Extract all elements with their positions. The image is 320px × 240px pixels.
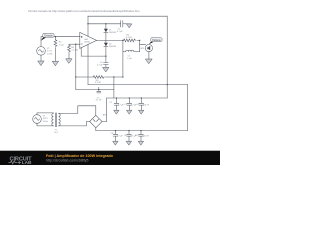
- wire V1 leads: [37, 113, 53, 126]
- voltage source V2: [37, 47, 46, 56]
- wire V+ pin: [87, 16, 89, 36]
- wire V- pin down: [87, 45, 89, 85]
- ground (V2): [38, 61, 44, 65]
- wire V+ to C1: [88, 23, 120, 25]
- ground (C9): [126, 141, 131, 145]
- capacitor C5: [104, 62, 109, 64]
- junction rail2 C10: [140, 130, 141, 131]
- wire C7 stub: [98, 87, 100, 91]
- wire R1 leads: [55, 37, 57, 61]
- svg-text:Circuito tomado de http://www.: Circuito tomado de http://www.pablin.com…: [28, 9, 140, 13]
- wire speaker bottom: [148, 52, 150, 59]
- junction rail1 C3: [129, 97, 130, 98]
- junction rail2 C9: [128, 130, 129, 131]
- callout Parlante: [149, 38, 162, 45]
- labels group2: [111, 133, 150, 138]
- svg-text:1.1 kΩ: 1.1 kΩ: [71, 50, 78, 52]
- svg-text:4.7 µF: 4.7 µF: [117, 31, 123, 33]
- wire feedback drop from L1 left node: [122, 52, 124, 77]
- junction at V+ pin: [87, 23, 88, 24]
- svg-text:100 nF: 100 nF: [142, 136, 149, 138]
- wire secondary top path: [59, 106, 96, 116]
- wire W_vminus: [88, 84, 188, 86]
- wire vertical x=113.9: [113, 77, 115, 98]
- svg-text:1 µH: 1 µH: [127, 58, 132, 60]
- svg-text:Entrada: Entrada: [44, 35, 53, 38]
- footer bar: [0, 151, 220, 165]
- svg-text:4.7 nF: 4.7 nF: [96, 100, 102, 102]
- transformer T1: [52, 113, 60, 127]
- capacitor C4: [139, 98, 144, 110]
- speaker SP1: [145, 45, 152, 52]
- svg-text:Parlante: Parlante: [152, 39, 161, 42]
- wire top rail: [88, 15, 167, 17]
- junction feedback node right: [122, 76, 123, 77]
- svg-text:1 kΩ: 1 kΩ: [59, 44, 64, 46]
- wire V2 bottom: [40, 55, 42, 61]
- junction at R1 top: [55, 36, 56, 37]
- wire opamp output: [97, 39, 124, 41]
- voltage source V1: [33, 115, 42, 124]
- wire secondary bottom path: [59, 122, 90, 126]
- junction at right supply node: [167, 84, 168, 85]
- ground (C10): [138, 141, 143, 145]
- ground (C5): [103, 67, 109, 71]
- wire minus input: [69, 43, 80, 45]
- junction at R4/L1 right node: [139, 40, 140, 41]
- diode D2: [104, 43, 108, 47]
- inductor L1: [123, 50, 140, 52]
- svg-text:LM741: LM741: [84, 42, 91, 44]
- junction rail1 C2: [116, 97, 117, 98]
- wire rail1 left riser to bridge: [102, 98, 107, 122]
- wire rail1: [107, 97, 168, 99]
- capacitor C9: [127, 131, 132, 141]
- capacitor C3: [127, 98, 132, 110]
- svg-text:Foki | Amplificador de 100W in: Foki | Amplificador de 100W integrado: [46, 154, 114, 158]
- junction at C7: [98, 89, 99, 90]
- label C2: [109, 102, 124, 107]
- resistor R3: [93, 76, 104, 79]
- ground (R1): [52, 61, 58, 65]
- wire rail2: [96, 85, 188, 131]
- wire offset pin riser to C5 node: [81, 48, 106, 56]
- callout Entrada: [41, 33, 54, 40]
- diode D1: [104, 29, 108, 33]
- resistor R2: [68, 45, 71, 52]
- ground (SP1): [146, 59, 153, 64]
- resistor R1: [54, 40, 57, 47]
- capacitor C1: [121, 21, 123, 27]
- wire minus input vertical: [75, 44, 77, 89]
- wire R2 lead: [68, 44, 70, 58]
- junction at inverting input: [75, 44, 76, 45]
- ground (C1): [127, 24, 132, 28]
- svg-text:1 kHz: 1 kHz: [47, 54, 53, 56]
- junction feedback node left: [75, 76, 76, 77]
- wire R4 right to speaker: [137, 40, 146, 44]
- wire C1 to ground: [123, 23, 129, 25]
- junction rail2 C8: [115, 130, 116, 131]
- capacitor C7: [97, 91, 101, 93]
- junction at D1 top: [105, 23, 106, 24]
- svg-text:1N4148: 1N4148: [109, 32, 117, 34]
- svg-text:4.7 µF: 4.7 µF: [117, 136, 123, 138]
- junction rail1 C4: [141, 97, 142, 98]
- wire W_b: [76, 89, 114, 91]
- wire L1 branch: [123, 40, 140, 51]
- svg-text:50 Hz: 50 Hz: [43, 121, 48, 123]
- svg-text:3.3 kΩ: 3.3 kΩ: [126, 37, 132, 39]
- ground (C8): [113, 141, 118, 145]
- svg-text:4.7 µF: 4.7 µF: [97, 65, 103, 67]
- wire V2 top to opamp plus input: [41, 37, 80, 47]
- svg-text:4.3 kΩ: 4.3 kΩ: [95, 82, 101, 84]
- svg-text:100 nF: 100 nF: [143, 105, 150, 107]
- capacitor C10: [139, 131, 144, 141]
- wire diode chain: [105, 24, 107, 67]
- junction at C5 top: [105, 55, 106, 56]
- junction feedback mid: [113, 76, 114, 77]
- svg-text:1 mV: 1 mV: [47, 51, 53, 53]
- label C4: [136, 104, 149, 107]
- logo symbols + LAB: [9, 161, 21, 164]
- label C3: [124, 104, 137, 107]
- wire feedback W_fb: [76, 76, 123, 78]
- svg-text:LAB: LAB: [22, 160, 32, 165]
- svg-text:1N4148: 1N4148: [109, 46, 117, 48]
- junction at R4/L1 left node: [122, 40, 123, 41]
- op-amp OA1: [80, 32, 97, 48]
- resistor R4: [124, 39, 136, 42]
- V2 labels: [47, 48, 53, 56]
- bridge rectifier BR1: [90, 115, 103, 128]
- capacitor C8: [113, 131, 118, 141]
- ground (C4): [139, 110, 144, 114]
- ground (C3): [127, 110, 132, 114]
- svg-text:http://circuitlab.com/c6t8fy5: http://circuitlab.com/c6t8fy5: [46, 158, 88, 162]
- capacitor C2: [114, 98, 119, 110]
- ground (R2): [66, 59, 72, 63]
- wire right vertical: [166, 16, 168, 98]
- ground (C2): [114, 110, 119, 114]
